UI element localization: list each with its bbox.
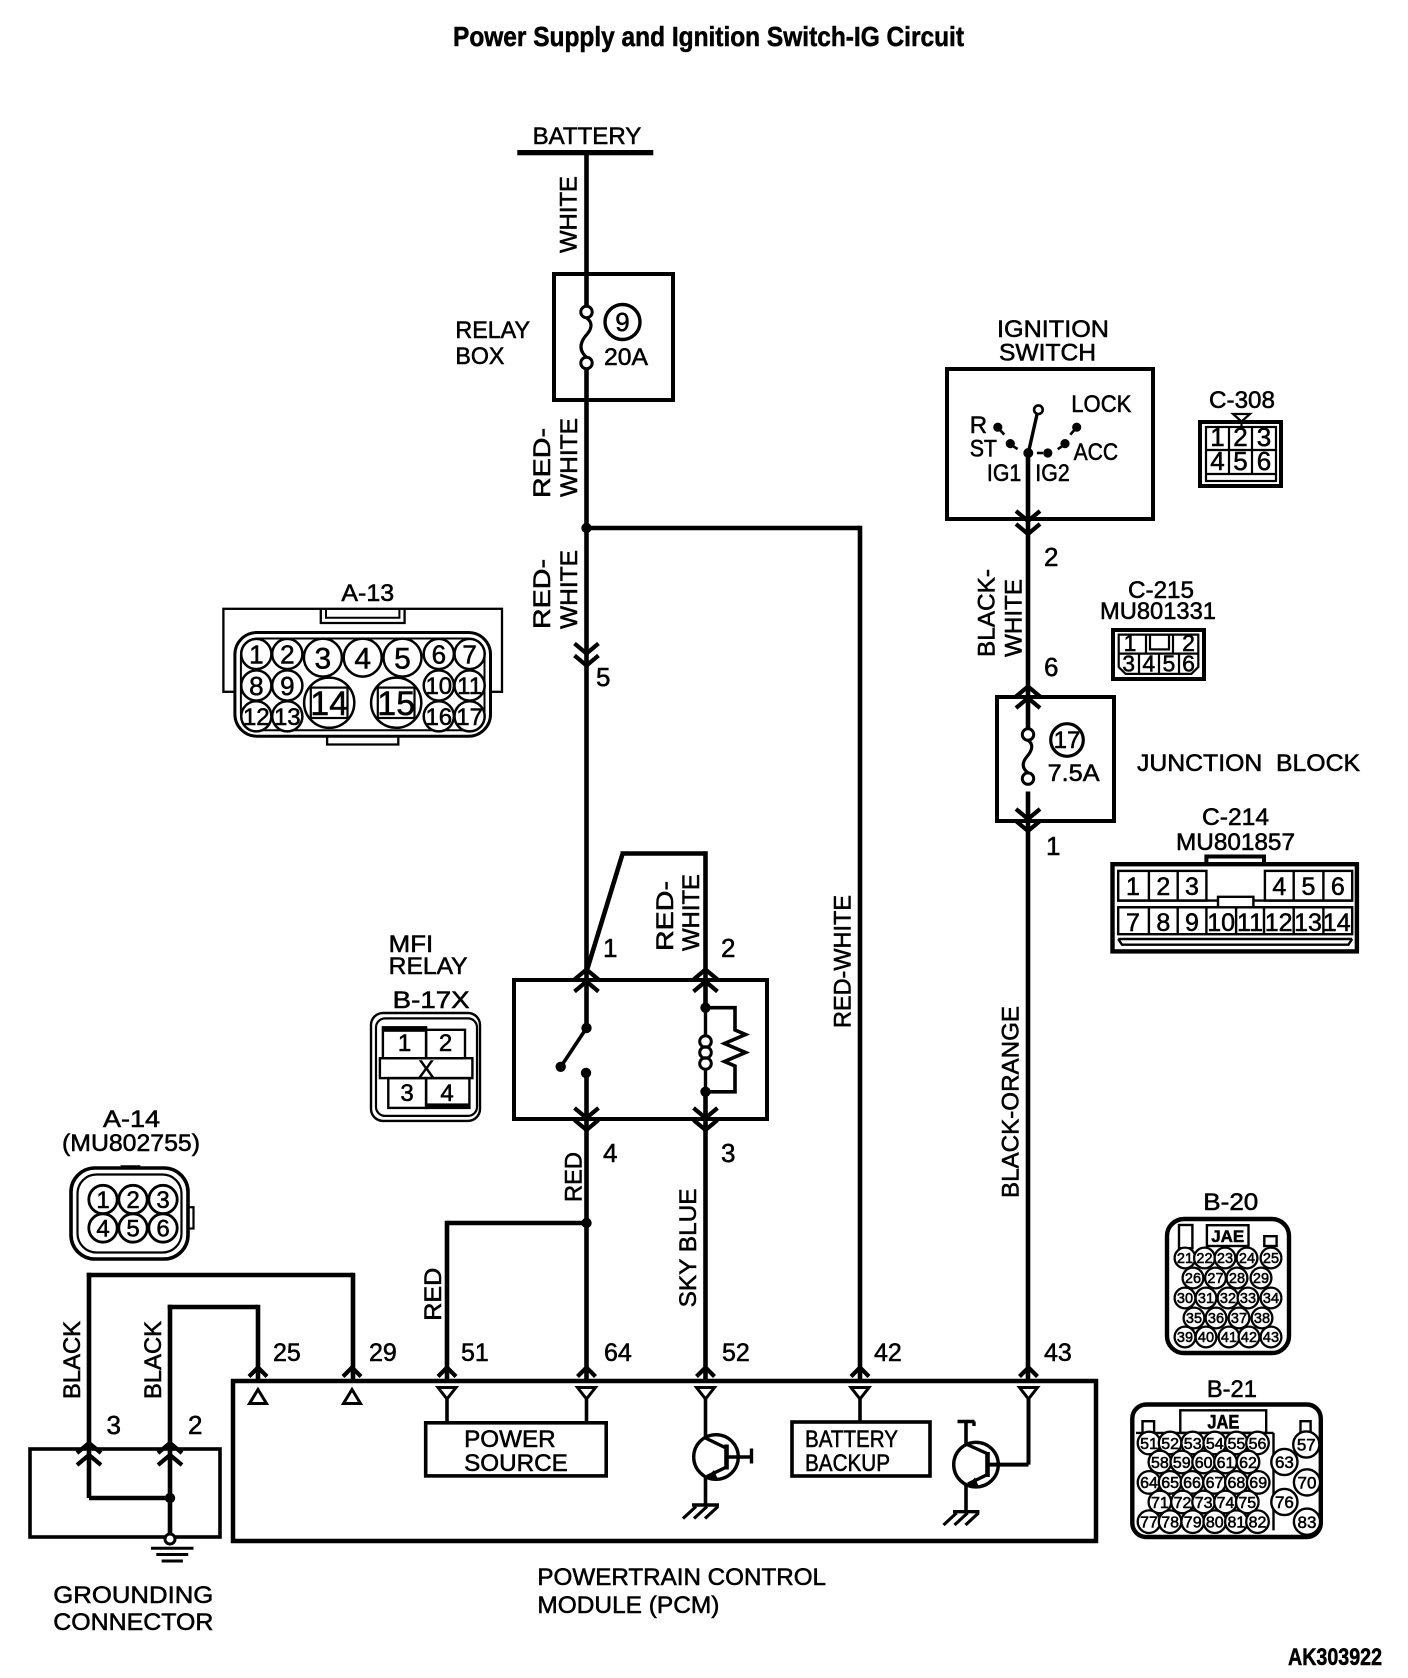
svg-text:3: 3	[315, 642, 332, 675]
node junction RED branch	[581, 1218, 591, 1228]
svg-text:9: 9	[280, 671, 294, 701]
svg-text:RELAY: RELAY	[389, 953, 468, 980]
label RED-WHITE mid	[529, 550, 583, 629]
wire grounding pin 2 to PCM pin 25 (BLACK)	[168, 1305, 258, 1449]
svg-text:60: 60	[1195, 1455, 1213, 1472]
svg-text:5: 5	[1301, 873, 1315, 901]
svg-text:13: 13	[274, 704, 301, 731]
svg-text:SKY BLUE: SKY BLUE	[675, 1188, 702, 1307]
svg-text:B-17X: B-17X	[393, 987, 470, 1014]
svg-text:8: 8	[249, 671, 263, 701]
svg-text:43: 43	[1263, 1330, 1279, 1346]
svg-text:4: 4	[1272, 873, 1286, 901]
svg-text:33: 33	[1240, 1291, 1256, 1307]
svg-text:3: 3	[1122, 651, 1135, 677]
PCM label	[537, 1564, 826, 1619]
svg-text:67: 67	[1206, 1475, 1224, 1492]
svg-text:4: 4	[603, 1138, 617, 1168]
svg-text:6: 6	[1182, 651, 1195, 677]
svg-text:80: 80	[1206, 1514, 1224, 1531]
svg-text:1: 1	[249, 639, 263, 669]
svg-text:2: 2	[721, 933, 735, 963]
svg-text:42: 42	[874, 1339, 902, 1367]
label RED-WHITE long wire	[830, 895, 857, 1028]
svg-text:14: 14	[1323, 909, 1351, 937]
relay coil	[700, 1003, 712, 1098]
svg-text:30: 30	[1177, 1291, 1193, 1307]
svg-text:16: 16	[425, 704, 452, 731]
label SKY BLUE	[675, 1188, 702, 1307]
grounding connector label	[53, 1582, 213, 1636]
svg-text:BLACK: BLACK	[59, 1321, 86, 1399]
svg-text:JAE: JAE	[1211, 1227, 1244, 1246]
wire pin 52 stem	[704, 1399, 708, 1437]
grounding connector pin 2	[158, 1410, 202, 1465]
connector B-21	[1132, 1376, 1321, 1537]
svg-text:BLACK-: BLACK-	[973, 569, 1000, 657]
svg-text:24: 24	[1239, 1251, 1255, 1267]
svg-text:11: 11	[457, 673, 482, 700]
svg-text:4: 4	[354, 642, 371, 675]
svg-text:BOX: BOX	[455, 343, 504, 370]
svg-text:7.5A: 7.5A	[1048, 760, 1100, 787]
svg-text:76: 76	[1275, 1493, 1294, 1512]
svg-text:74: 74	[1217, 1495, 1235, 1512]
svg-text:81: 81	[1228, 1514, 1246, 1531]
wire ignition switch to junction block (BLACK-WHITE)	[1026, 453, 1031, 730]
MFI relay pin 1	[575, 933, 618, 992]
relay resistor	[706, 1008, 746, 1092]
PCM box	[233, 1381, 1096, 1541]
connector A-13	[223, 580, 502, 745]
label BLACK left	[59, 1321, 86, 1399]
svg-text:AK303922: AK303922	[1288, 1644, 1382, 1671]
svg-text:ACC: ACC	[1074, 439, 1119, 466]
power source box	[426, 1423, 607, 1477]
svg-text:WHITE: WHITE	[678, 874, 705, 951]
svg-text:51: 51	[461, 1339, 489, 1367]
transistor Q1 (pin 52 driver)	[694, 1435, 752, 1505]
wire battery to relay box, WHITE	[584, 152, 589, 306]
svg-text:C-308: C-308	[1209, 387, 1275, 414]
transistor Q2 (pin 43 driver)	[954, 1422, 999, 1512]
svg-text:B-21: B-21	[1207, 1376, 1257, 1403]
svg-text:4: 4	[96, 1216, 109, 1243]
svg-text:54: 54	[1206, 1436, 1224, 1453]
ground Q2	[944, 1512, 980, 1525]
svg-text:3: 3	[1185, 873, 1199, 901]
svg-text:A-13: A-13	[341, 580, 394, 607]
MFI relay box B-17X	[514, 980, 767, 1119]
grounding connector box	[30, 1449, 220, 1537]
svg-text:1: 1	[1046, 831, 1060, 861]
svg-text:5: 5	[126, 1216, 139, 1243]
svg-text:RED: RED	[420, 1268, 447, 1321]
node junction battery feed	[581, 523, 591, 533]
svg-text:63: 63	[1275, 1453, 1294, 1472]
svg-text:72: 72	[1174, 1495, 1192, 1512]
svg-text:6: 6	[432, 639, 446, 669]
svg-text:20A: 20A	[604, 344, 648, 371]
svg-text:A-14: A-14	[103, 1106, 160, 1133]
wire relay box to MFI relay pin 1 (RED-WHITE)	[584, 369, 589, 1028]
svg-text:35: 35	[1186, 1311, 1202, 1327]
relay switch contact	[556, 1023, 592, 1078]
svg-text:43: 43	[1044, 1339, 1072, 1367]
grounding connector pin 3	[77, 1410, 121, 1465]
wire pin 43 stem	[989, 1399, 1029, 1465]
svg-text:70: 70	[1298, 1474, 1317, 1493]
svg-text:29: 29	[1253, 1271, 1269, 1287]
svg-text:61: 61	[1217, 1455, 1235, 1472]
svg-text:34: 34	[1263, 1291, 1279, 1307]
svg-text:5: 5	[1233, 446, 1247, 476]
label RED-WHITE MFI pin 2	[652, 874, 705, 951]
svg-text:1: 1	[96, 1187, 109, 1214]
svg-text:52: 52	[722, 1339, 750, 1367]
battery backup box	[792, 1422, 930, 1477]
svg-text:2: 2	[188, 1410, 202, 1440]
svg-text:RED-: RED-	[529, 559, 556, 629]
svg-text:3: 3	[721, 1138, 735, 1168]
svg-text:RED-: RED-	[652, 881, 679, 951]
svg-text:38: 38	[1254, 1311, 1270, 1327]
svg-text:12: 12	[1265, 909, 1293, 937]
svg-text:SWITCH: SWITCH	[999, 340, 1096, 367]
MFI relay pin 4	[575, 1108, 618, 1168]
svg-text:12: 12	[243, 704, 270, 731]
svg-text:IG2: IG2	[1035, 460, 1069, 487]
svg-text:11: 11	[1237, 909, 1263, 937]
svg-text:10: 10	[1207, 909, 1235, 937]
svg-text:7: 7	[1126, 909, 1140, 937]
wire junction block internal	[1026, 792, 1031, 822]
svg-text:21: 21	[1177, 1251, 1193, 1267]
fuse 9 20A	[581, 305, 648, 372]
connector C-214 MU801857	[1113, 804, 1357, 951]
svg-text:79: 79	[1184, 1514, 1202, 1531]
svg-text:6: 6	[1257, 446, 1271, 476]
connector B-20	[1167, 1189, 1289, 1353]
svg-text:42: 42	[1241, 1330, 1257, 1346]
svg-text:78: 78	[1161, 1514, 1179, 1531]
wire MFI pin 4 to PCM pin 64 (RED)	[584, 1073, 589, 1381]
junction block fuse box	[997, 697, 1360, 821]
wire junction block to PCM pin 43 (BLACK-ORANGE)	[1026, 821, 1031, 1381]
MFI relay labels	[389, 931, 470, 1014]
svg-text:GROUNDING: GROUNDING	[53, 1582, 213, 1609]
svg-text:MODULE (PCM): MODULE (PCM)	[537, 1592, 719, 1619]
svg-text:5: 5	[394, 642, 411, 675]
svg-text:5: 5	[1163, 651, 1176, 677]
svg-text:68: 68	[1228, 1475, 1246, 1492]
svg-text:17: 17	[456, 704, 483, 731]
svg-text:2: 2	[280, 639, 294, 669]
ground Q1	[683, 1505, 719, 1519]
svg-text:26: 26	[1185, 1271, 1201, 1287]
svg-text:51: 51	[1140, 1436, 1158, 1453]
battery B+	[517, 123, 653, 155]
label BLACK-ORANGE	[997, 1006, 1024, 1198]
svg-text:1: 1	[1126, 873, 1140, 901]
svg-text:3: 3	[107, 1410, 121, 1440]
relay box	[455, 274, 673, 400]
svg-text:31: 31	[1198, 1291, 1214, 1307]
svg-text:23: 23	[1217, 1251, 1233, 1267]
MFI relay pin 2	[694, 933, 736, 992]
footer code AK303922	[1288, 1644, 1382, 1671]
svg-text:BATTERY: BATTERY	[533, 123, 642, 150]
svg-text:9: 9	[1185, 909, 1199, 937]
svg-text:39: 39	[1177, 1330, 1193, 1346]
label WHITE	[556, 176, 583, 253]
svg-text:6: 6	[1044, 652, 1058, 682]
svg-text:2: 2	[126, 1187, 139, 1214]
svg-text:62: 62	[1239, 1455, 1257, 1472]
ignition switch	[947, 316, 1153, 519]
svg-text:MU801331: MU801331	[1100, 598, 1216, 625]
svg-text:RELAY: RELAY	[455, 317, 530, 344]
svg-text:1: 1	[398, 1030, 411, 1057]
label RED pin51	[420, 1268, 447, 1321]
svg-text:LOCK: LOCK	[1071, 391, 1131, 418]
svg-text:66: 66	[1183, 1475, 1201, 1492]
svg-text:RED: RED	[561, 1152, 588, 1202]
svg-text:5: 5	[596, 662, 610, 692]
svg-text:14: 14	[310, 685, 348, 723]
svg-text:27: 27	[1207, 1271, 1223, 1287]
svg-text:82: 82	[1249, 1514, 1267, 1531]
svg-text:36: 36	[1208, 1311, 1224, 1327]
svg-text:15: 15	[377, 685, 415, 723]
connector A-14 MU802755	[62, 1106, 200, 1259]
svg-text:37: 37	[1231, 1311, 1247, 1327]
svg-text:77: 77	[1140, 1514, 1158, 1531]
label BLACK right	[140, 1321, 167, 1399]
PCM pin 42	[851, 1339, 902, 1399]
svg-text:10: 10	[425, 673, 452, 700]
svg-text:BLACK: BLACK	[140, 1321, 167, 1399]
svg-text:2: 2	[439, 1030, 452, 1057]
svg-text:64: 64	[1140, 1475, 1158, 1492]
svg-text:4: 4	[440, 1080, 453, 1107]
svg-text:22: 22	[1196, 1251, 1212, 1267]
svg-text:25: 25	[1263, 1251, 1279, 1267]
svg-text:WHITE: WHITE	[1001, 579, 1028, 657]
svg-text:RED-: RED-	[529, 428, 556, 498]
connector C-215 pin 6	[1016, 652, 1058, 708]
PCM pin 64	[578, 1339, 632, 1399]
svg-text:59: 59	[1173, 1455, 1191, 1472]
svg-text:83: 83	[1298, 1513, 1317, 1532]
svg-text:32: 32	[1220, 1291, 1236, 1307]
svg-text:6: 6	[1331, 873, 1345, 901]
svg-text:6: 6	[156, 1216, 169, 1243]
svg-text:POWERTRAIN CONTROL: POWERTRAIN CONTROL	[537, 1564, 826, 1591]
svg-text:BACKUP: BACKUP	[805, 1450, 890, 1477]
wire pin 64 stem	[585, 1399, 589, 1423]
svg-text:ST: ST	[970, 436, 998, 463]
wire MFI relay pin 2 branch (RED-WHITE)	[587, 851, 706, 1008]
svg-text:73: 73	[1195, 1495, 1213, 1512]
svg-text:13: 13	[1294, 909, 1322, 937]
svg-text:25: 25	[273, 1339, 301, 1367]
svg-text:9: 9	[615, 307, 629, 337]
svg-text:4: 4	[1210, 446, 1224, 476]
wire branch to PCM pin 51 (RED)	[447, 1221, 587, 1381]
wire branch to PCM pin 42 (RED-WHITE)	[587, 526, 861, 1381]
PCM pin 29	[343, 1339, 397, 1404]
fuse 17 7.5A	[1022, 724, 1099, 787]
svg-text:2: 2	[1044, 542, 1058, 572]
svg-text:55: 55	[1228, 1436, 1246, 1453]
title	[453, 21, 964, 52]
svg-text:3: 3	[400, 1080, 413, 1107]
svg-text:B-20: B-20	[1203, 1189, 1258, 1216]
svg-text:4: 4	[1142, 651, 1155, 677]
svg-text:Power Supply and Ignition Swit: Power Supply and Ignition Switch-IG Circ…	[453, 21, 964, 52]
PCM pin 52	[697, 1339, 750, 1399]
PCM pin 43	[1020, 1339, 1072, 1399]
svg-text:WHITE: WHITE	[556, 550, 583, 629]
svg-text:64: 64	[604, 1339, 632, 1367]
svg-text:71: 71	[1151, 1495, 1169, 1512]
svg-text:RED-WHITE: RED-WHITE	[830, 895, 857, 1028]
connector C-215 MU801331	[1100, 577, 1216, 679]
svg-text:2: 2	[1156, 873, 1170, 901]
PCM pin 25	[249, 1339, 301, 1404]
svg-text:17: 17	[1054, 727, 1081, 754]
svg-text:58: 58	[1151, 1455, 1169, 1472]
svg-text:29: 29	[369, 1339, 397, 1367]
label RED pin4	[561, 1152, 588, 1202]
wire MFI pin 3 to PCM pin 52 (SKY BLUE)	[703, 1092, 708, 1381]
svg-text:28: 28	[1229, 1271, 1245, 1287]
svg-text:3: 3	[156, 1187, 169, 1214]
svg-text:41: 41	[1221, 1330, 1237, 1346]
label BLACK-WHITE	[973, 569, 1027, 657]
MFI relay pin 3	[694, 1108, 736, 1168]
svg-text:1: 1	[603, 933, 617, 963]
ground symbol	[151, 1534, 194, 1561]
ignition connector pin 2	[1016, 511, 1058, 572]
svg-text:C-214: C-214	[1202, 804, 1269, 831]
svg-text:BATTERY: BATTERY	[805, 1426, 898, 1453]
svg-text:75: 75	[1238, 1495, 1256, 1512]
svg-text:IG1: IG1	[987, 460, 1021, 487]
svg-text:69: 69	[1249, 1475, 1267, 1492]
connector C-308	[1200, 387, 1281, 486]
svg-text:WHITE: WHITE	[556, 176, 583, 253]
svg-text:BLACK-ORANGE: BLACK-ORANGE	[997, 1006, 1024, 1198]
wire pin 42 stem	[858, 1399, 862, 1422]
svg-text:65: 65	[1161, 1475, 1179, 1492]
svg-text:SOURCE: SOURCE	[464, 1450, 568, 1477]
svg-text:7: 7	[462, 639, 476, 669]
svg-text:53: 53	[1184, 1436, 1202, 1453]
svg-text:8: 8	[1156, 909, 1170, 937]
svg-text:JAE: JAE	[1207, 1413, 1239, 1434]
svg-text:MU801857: MU801857	[1176, 829, 1295, 856]
svg-text:CONNECTOR: CONNECTOR	[53, 1609, 213, 1636]
connector C-214 pin 1	[1016, 809, 1060, 861]
svg-text:40: 40	[1198, 1330, 1214, 1346]
svg-text:WHITE: WHITE	[556, 418, 583, 497]
wire grounding pin 3 to PCM pin 29 (BLACK)	[87, 1273, 353, 1449]
svg-text:(MU802755): (MU802755)	[62, 1130, 200, 1157]
label RED-WHITE upper	[529, 418, 583, 498]
connector B-17X	[371, 1013, 480, 1121]
wire pin 51 stem	[445, 1399, 449, 1423]
PCM pin 51	[438, 1339, 489, 1399]
connector A-13 pin 5 pass-through	[575, 644, 611, 693]
svg-text:JUNCTION BLOCK: JUNCTION BLOCK	[1137, 750, 1360, 777]
svg-text:POWER: POWER	[464, 1426, 555, 1453]
svg-text:X: X	[418, 1056, 434, 1083]
svg-text:57: 57	[1297, 1436, 1316, 1455]
